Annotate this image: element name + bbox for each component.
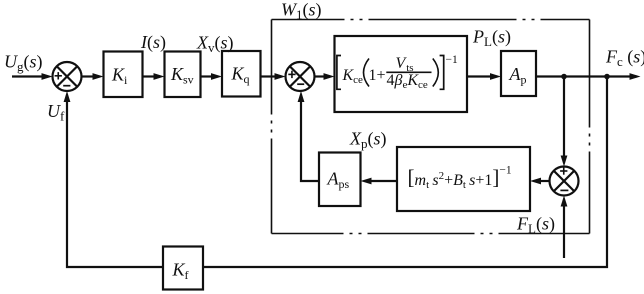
summing junction S1 (53, 62, 82, 91)
wire dot1 down to S3 (563, 77, 565, 158)
wire A1 to output Fc (536, 75, 631, 77)
wire K2 to K3 (201, 75, 214, 77)
svg-text:I(s): I(s) (140, 32, 166, 53)
block G1 formula fraction bar (386, 71, 431, 73)
svg-text:−1: −1 (446, 54, 458, 66)
dashed box W1 bottom border (272, 233, 590, 235)
wire K1 to K2 (143, 75, 156, 77)
wire FL input up into S3 (563, 205, 565, 259)
S3 plus sign (560, 167, 567, 174)
block G1 formula paren right (433, 59, 439, 87)
wire G1 to A1 (467, 75, 492, 77)
wire S3 to G2 (539, 180, 550, 182)
svg-text:Xp(s): Xp(s) (349, 129, 387, 152)
block G1 formula bracket left (337, 56, 341, 90)
block K2 Ksv (165, 52, 201, 98)
wire K3 to S2 (261, 75, 277, 77)
dashed box W1 top border (272, 19, 590, 21)
node arrowhead into S1 (42, 73, 53, 80)
S3 minus sign (560, 189, 568, 191)
svg-text:FL(s): FL(s) (516, 214, 555, 237)
wire S2 to G1 (315, 75, 326, 77)
svg-text:PL(s): PL(s) (472, 27, 511, 50)
svg-text:1+: 1+ (369, 67, 386, 84)
dashed box W1 left border (271, 20, 273, 234)
wire G2 to A2 (370, 180, 397, 182)
block K3 Kq (222, 51, 261, 97)
block A1 Ap (501, 51, 536, 96)
svg-text:Xv(s): Xv(s) (196, 33, 234, 56)
block G1 Kce (335, 36, 468, 112)
summing junction S2 (286, 62, 315, 91)
wire input Ug (12, 75, 43, 77)
S2 plus sign (288, 71, 295, 78)
node dot1 (561, 74, 567, 80)
S1 plus sign (55, 72, 62, 79)
block K4 Kf (163, 247, 203, 290)
wire Kf to S1 (67, 100, 163, 268)
block A2 Aps (319, 153, 361, 207)
wire A2 to S2 (301, 100, 319, 182)
S2 minus sign (297, 83, 304, 85)
S1 minus sign (63, 85, 70, 87)
svg-text:Fc (s): Fc (s) (605, 47, 644, 70)
dashed box W1 right border (589, 20, 591, 234)
node dot2 (604, 74, 610, 80)
block G1 formula paren left (364, 59, 370, 87)
wire dot2 down to Kf feedback (203, 77, 607, 268)
wire S1 to K1 (82, 75, 95, 77)
svg-text:Ug(s): Ug(s) (4, 52, 43, 75)
summing junction S3 (550, 167, 579, 196)
block G2 mt (397, 147, 530, 211)
block K1 Ki (104, 52, 143, 98)
block G1 formula bracket right (440, 56, 444, 90)
